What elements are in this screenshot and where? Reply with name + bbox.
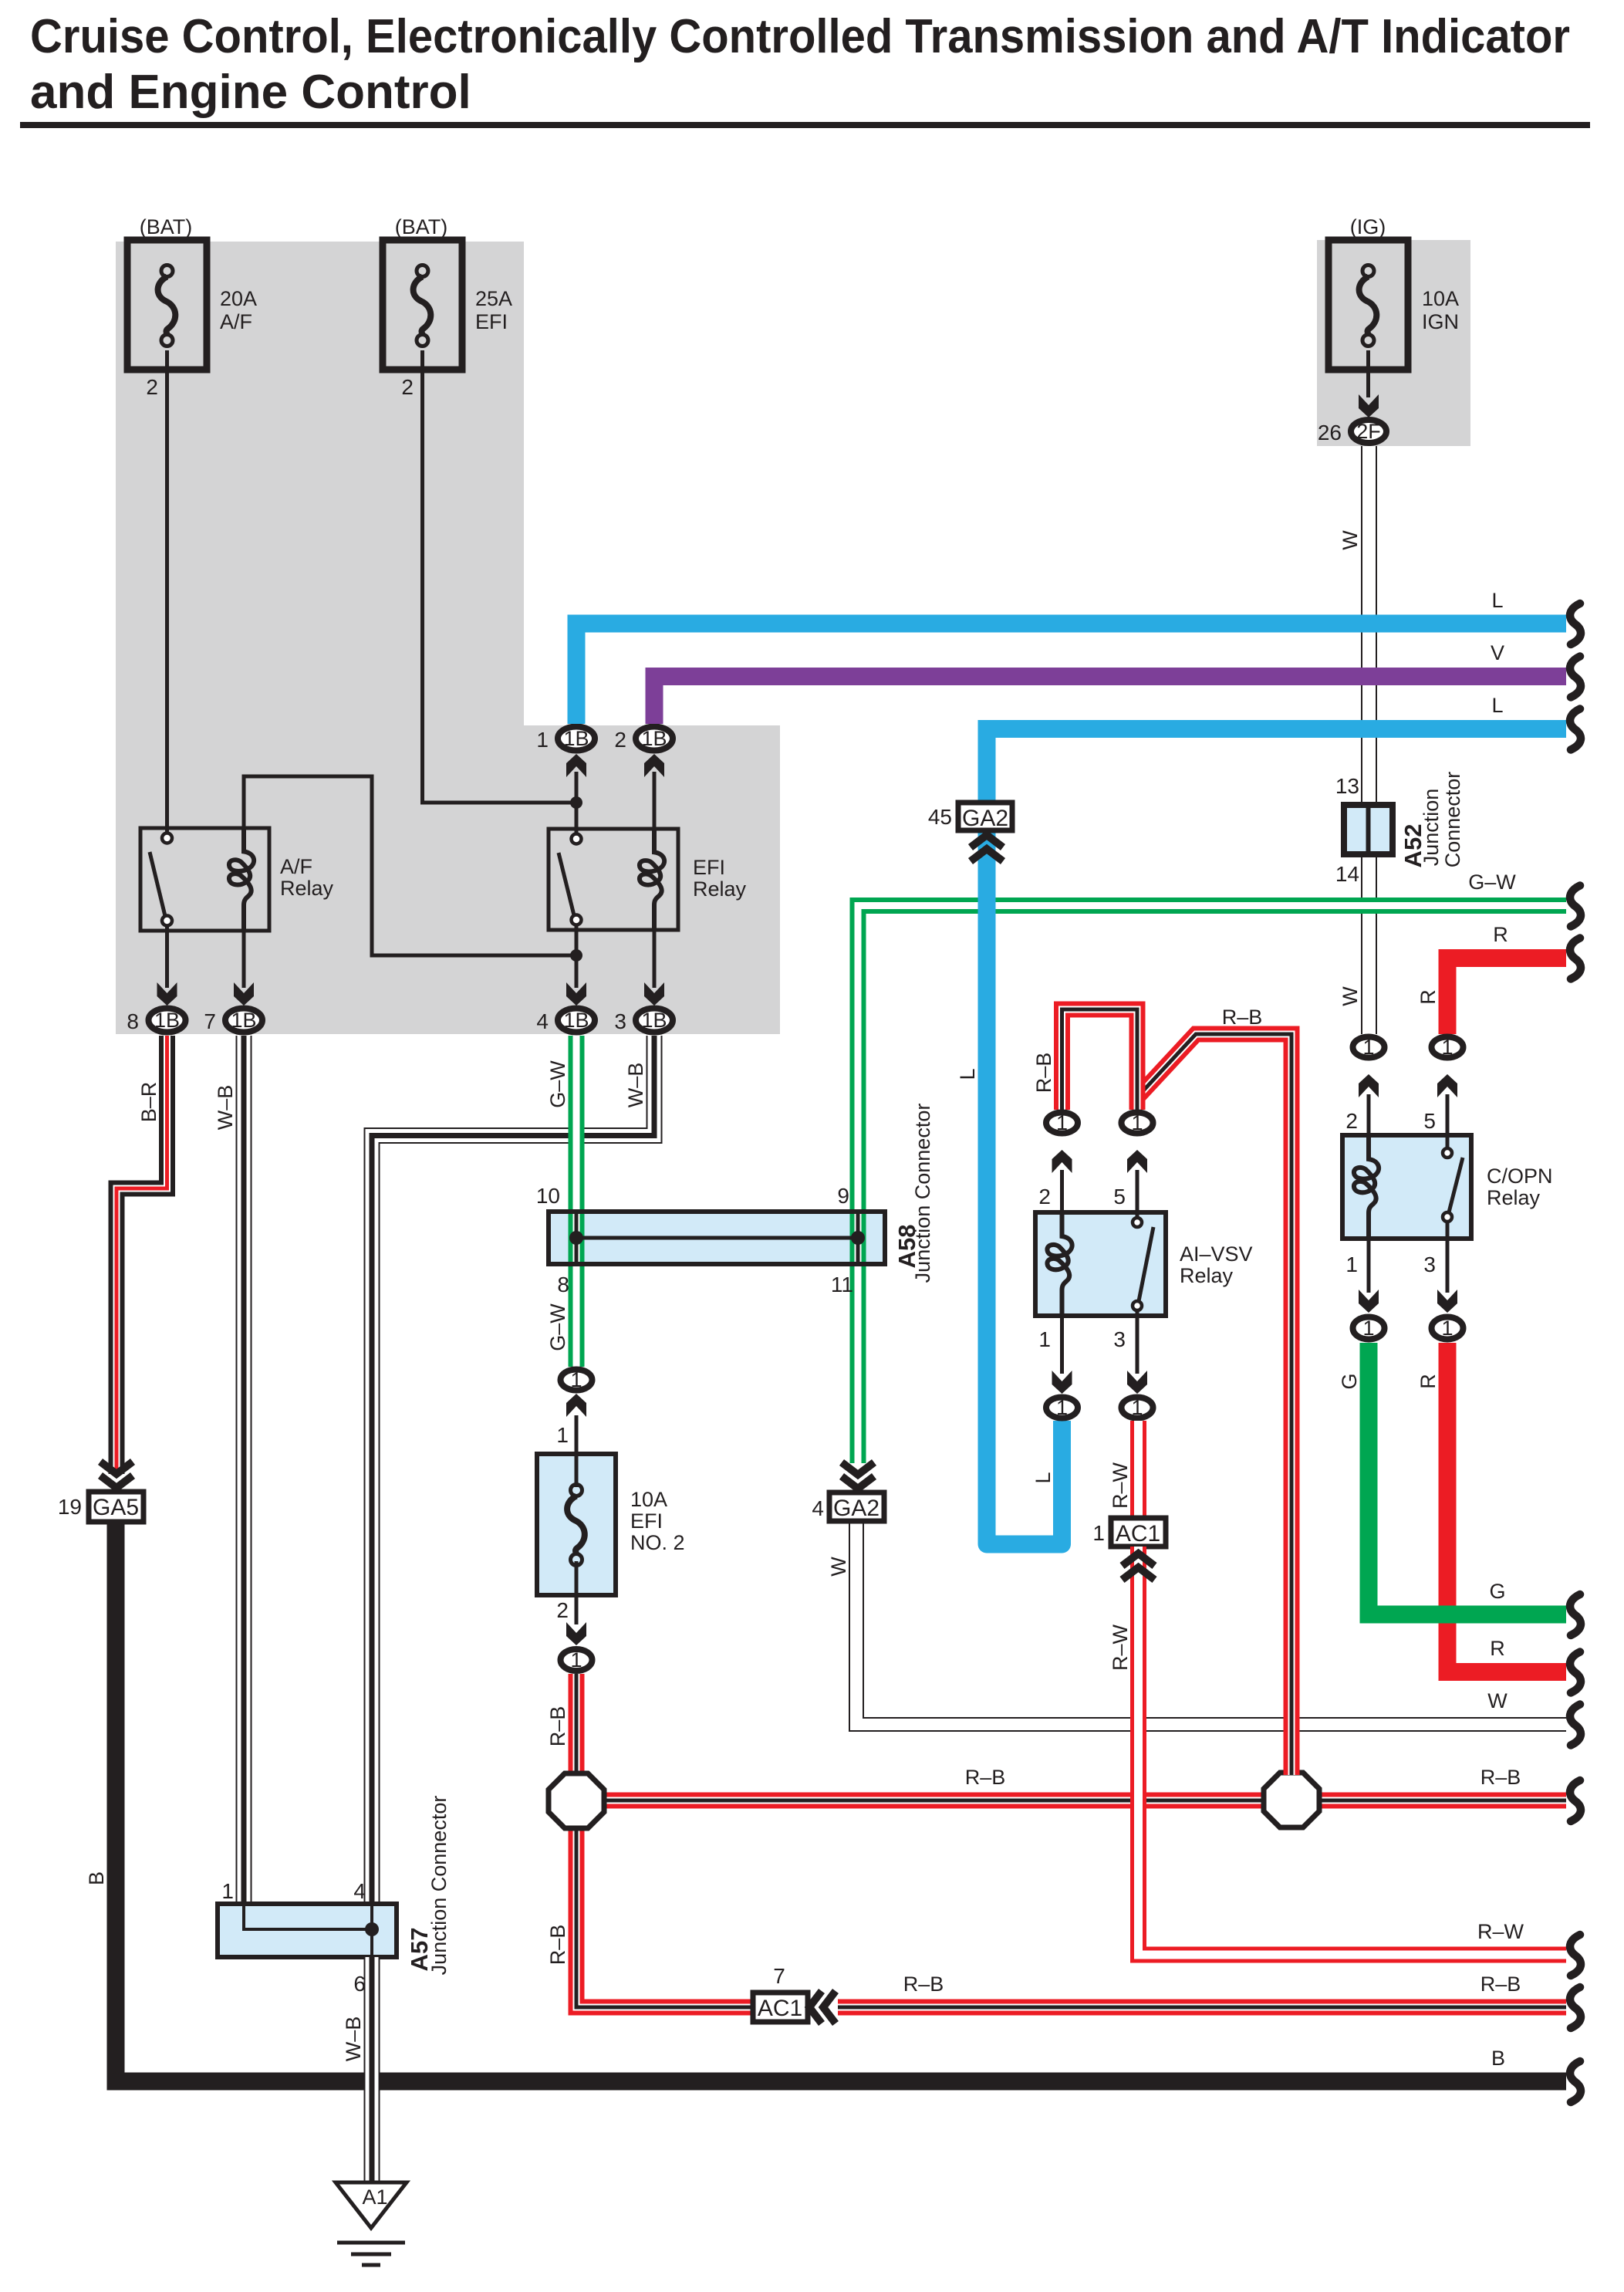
connector oval 2 1B bbox=[636, 727, 673, 751]
fuse 25A EFI bbox=[383, 240, 462, 370]
wire L blue from GA2 to AI-VSV relay oval bbox=[987, 830, 1062, 1544]
svg-text:13: 13 bbox=[1335, 774, 1359, 798]
svg-text:A/F: A/F bbox=[280, 855, 312, 878]
svg-text:5: 5 bbox=[1113, 1185, 1126, 1209]
svg-text:L: L bbox=[1031, 1472, 1055, 1483]
svg-text:G–W: G–W bbox=[1468, 870, 1516, 894]
wire R from break to C/OPN pin5 oval bbox=[1447, 958, 1566, 1035]
svg-text:W: W bbox=[1339, 986, 1362, 1006]
junction connector A58 bbox=[549, 1212, 885, 1264]
svg-text:1: 1 bbox=[1345, 1252, 1358, 1276]
break R-W bbox=[1570, 1935, 1581, 1976]
wire oval to AI-VSV pin5 bbox=[1136, 1170, 1140, 1212]
svg-text:2: 2 bbox=[1038, 1185, 1051, 1209]
fuse 20A A/F bbox=[127, 240, 207, 370]
arrow into 8 1B bbox=[157, 982, 177, 1006]
svg-text:7: 7 bbox=[773, 1964, 785, 1988]
svg-text:R–W: R–W bbox=[1109, 1624, 1132, 1671]
wire R-W oval to AC1 bbox=[1130, 1421, 1146, 1518]
break R-B bottom bbox=[1570, 1987, 1581, 2028]
svg-text:(BAT): (BAT) bbox=[140, 215, 193, 238]
svg-text:1: 1 bbox=[1092, 1521, 1105, 1545]
svg-text:IGN: IGN bbox=[1422, 310, 1459, 333]
wire R-W AC1 to break bbox=[1139, 1547, 1567, 1955]
connector oval AI-VSV pin5 bbox=[1122, 1111, 1153, 1134]
svg-text:V: V bbox=[1491, 641, 1504, 664]
svg-text:R–W: R–W bbox=[1109, 1462, 1132, 1509]
connector oval 8 1B bbox=[149, 1009, 186, 1033]
wire EFI relay switch to node bbox=[575, 920, 579, 955]
svg-text:EFI: EFI bbox=[475, 310, 508, 333]
wire oval to C/OPN pin5 bbox=[1446, 1094, 1450, 1135]
wire C/OPN pin1 down bbox=[1367, 1239, 1371, 1293]
svg-text:A1: A1 bbox=[362, 2186, 387, 2209]
svg-text:Relay: Relay bbox=[1180, 1264, 1234, 1287]
svg-text:(BAT): (BAT) bbox=[395, 215, 448, 238]
svg-text:GA2: GA2 bbox=[962, 806, 1008, 831]
arrow into oval below pin3 bbox=[1127, 1371, 1147, 1394]
wire fuse EFI down bbox=[423, 350, 577, 803]
svg-text:G–W: G–W bbox=[546, 1060, 569, 1108]
svg-text:AC1: AC1 bbox=[1116, 1521, 1160, 1547]
svg-text:R–B: R–B bbox=[1481, 1973, 1521, 1996]
svg-text:G: G bbox=[1489, 1580, 1505, 1603]
junction connector A52 bbox=[1344, 805, 1393, 854]
svg-text:EFI: EFI bbox=[693, 856, 725, 879]
svg-text:R: R bbox=[1416, 1374, 1440, 1389]
arrow into AI-VSV pin5 oval bbox=[1127, 1150, 1147, 1173]
wire oval to C/OPN pin2 bbox=[1367, 1094, 1371, 1135]
break G bbox=[1570, 1594, 1581, 1635]
connector oval AI-VSV pin2 bbox=[1046, 1111, 1078, 1134]
wire G-W horizontal from break down to 4 GA2 bbox=[858, 906, 1566, 1464]
svg-text:Junction Connector: Junction Connector bbox=[427, 1796, 451, 1976]
svg-text:GA5: GA5 bbox=[93, 1495, 139, 1520]
svg-text:W–B: W–B bbox=[342, 2016, 365, 2062]
wire EFI relay coil to 3 1B bbox=[653, 930, 657, 988]
svg-text:4: 4 bbox=[812, 1496, 824, 1520]
svg-text:and Engine Control: and Engine Control bbox=[30, 66, 471, 119]
break R bottom bbox=[1570, 1652, 1581, 1693]
svg-text:3: 3 bbox=[1423, 1252, 1436, 1276]
svg-text:1: 1 bbox=[1056, 1111, 1068, 1134]
connector oval below AI-VSV pin3 bbox=[1122, 1396, 1153, 1419]
svg-text:9: 9 bbox=[837, 1184, 849, 1208]
svg-text:G: G bbox=[1338, 1373, 1361, 1389]
connector oval 1 below fuse bbox=[561, 1648, 593, 1672]
svg-text:W: W bbox=[1487, 1689, 1508, 1712]
arrow into 2F bbox=[1359, 394, 1379, 417]
svg-text:3: 3 bbox=[1113, 1327, 1126, 1351]
svg-text:NO. 2: NO. 2 bbox=[630, 1531, 685, 1554]
wire node to EFI relay switch bbox=[575, 803, 579, 839]
arrow into GA5 bbox=[100, 1462, 133, 1488]
break B bbox=[1570, 2061, 1581, 2102]
svg-text:B–R: B–R bbox=[137, 1082, 160, 1123]
svg-text:10A: 10A bbox=[630, 1488, 667, 1511]
svg-text:GA2: GA2 bbox=[833, 1496, 880, 1521]
break R-B mid bbox=[1570, 1780, 1581, 1821]
connector oval below C/OPN pin1 bbox=[1353, 1317, 1385, 1340]
ground A1 bbox=[336, 2182, 407, 2265]
svg-text:L: L bbox=[956, 1068, 979, 1080]
svg-text:Relay: Relay bbox=[693, 877, 747, 901]
svg-text:W: W bbox=[827, 1557, 850, 1577]
svg-text:10A: 10A bbox=[1422, 287, 1459, 310]
break L first bbox=[1570, 603, 1581, 644]
break V bbox=[1570, 657, 1581, 698]
svg-text:Relay: Relay bbox=[1487, 1186, 1541, 1209]
wire fuse A/F to relay A/F bbox=[165, 350, 169, 838]
svg-text:4: 4 bbox=[353, 1879, 366, 1903]
connector oval 1 1B bbox=[558, 727, 595, 751]
svg-text:20A: 20A bbox=[220, 287, 257, 310]
connector oval 1 above fuse bbox=[561, 1368, 593, 1391]
svg-text:14: 14 bbox=[1335, 862, 1359, 886]
wire V purple to 2 1B bbox=[654, 677, 1566, 725]
junction node EFI relay bottom bbox=[570, 949, 582, 962]
wire W-B from 7 1B to A57 pin1 bbox=[236, 1036, 252, 1904]
wire G C/OPN pin1 to break bbox=[1369, 1343, 1566, 1614]
svg-text:5: 5 bbox=[1423, 1109, 1436, 1133]
wire B-R from 8 1B to GA5 bbox=[116, 1036, 167, 1474]
svg-text:Connector: Connector bbox=[1441, 772, 1464, 868]
arrow into oval below pin1 bbox=[1052, 1371, 1072, 1394]
wire node to 4 1B bbox=[575, 955, 579, 988]
svg-text:A/F: A/F bbox=[220, 310, 252, 333]
arrow into 4 1B bbox=[566, 982, 586, 1006]
svg-text:8: 8 bbox=[127, 1009, 139, 1033]
splice octagon right bbox=[1264, 1773, 1319, 1827]
svg-text:R–B: R–B bbox=[965, 1766, 1006, 1789]
wire W-B from 3 1B to A57 pin4 bbox=[372, 1036, 654, 1904]
wire R-B branch to right octagon bbox=[1135, 1034, 1291, 1775]
wire oval to AI-VSV pin2 bbox=[1060, 1170, 1064, 1212]
title bbox=[20, 10, 1590, 128]
connector oval 26 2F bbox=[1351, 420, 1386, 443]
svg-text:R–W: R–W bbox=[1477, 1920, 1524, 1943]
wire W-B A57 to ground bbox=[364, 1957, 380, 2226]
wire A/F relay coil to 7 1B bbox=[242, 931, 246, 988]
wire fuse to lower oval bbox=[575, 1595, 579, 1624]
wire R-B from break to AC1 chevron bbox=[838, 2000, 1566, 2016]
svg-text:L: L bbox=[1491, 589, 1503, 612]
svg-text:1: 1 bbox=[1131, 1111, 1143, 1134]
relay A/F bbox=[140, 828, 269, 931]
svg-text:Cruise Control, Electronically: Cruise Control, Electronically Controlle… bbox=[30, 10, 1570, 63]
connector 19 GA5 bbox=[89, 1492, 143, 1522]
svg-text:R: R bbox=[1493, 923, 1508, 946]
fuse 10A IGN bbox=[1329, 240, 1408, 370]
svg-text:1: 1 bbox=[1441, 1036, 1453, 1059]
relay EFI bbox=[549, 829, 678, 930]
wire node to 1B pin1 bbox=[575, 772, 579, 803]
arrow into 1B pin1 bbox=[566, 754, 586, 777]
wire L blue overlay at G-W crossing bbox=[978, 887, 996, 926]
wire fuse IGN to 2F bbox=[1366, 350, 1370, 397]
svg-text:B: B bbox=[85, 1871, 108, 1885]
svg-text:1B: 1B bbox=[641, 727, 667, 750]
arrow into oval below pin1 bbox=[1359, 1290, 1379, 1313]
wire C/OPN pin3 down bbox=[1446, 1239, 1450, 1293]
wire node to A/F relay coil bbox=[244, 776, 576, 955]
svg-text:W–B: W–B bbox=[214, 1085, 237, 1131]
svg-text:R–B: R–B bbox=[546, 1706, 569, 1747]
arrow into AI-VSV pin2 oval bbox=[1052, 1150, 1072, 1173]
svg-text:Junction Connector: Junction Connector bbox=[911, 1104, 934, 1283]
svg-text:W–B: W–B bbox=[624, 1063, 647, 1108]
wire G-W to 4 GA2 chevron bbox=[842, 1462, 874, 1489]
wire R C/OPN pin3 to break bbox=[1447, 1343, 1566, 1672]
svg-text:1B: 1B bbox=[563, 727, 589, 750]
svg-text:1B: 1B bbox=[154, 1009, 180, 1032]
svg-text:26: 26 bbox=[1318, 421, 1342, 445]
wire W from 2F to A52 bbox=[1361, 446, 1377, 802]
svg-text:1: 1 bbox=[1131, 1396, 1143, 1419]
connector oval 4 1B bbox=[558, 1009, 595, 1033]
connector oval C/OPN pin5 bbox=[1432, 1036, 1464, 1059]
svg-text:8: 8 bbox=[557, 1273, 569, 1296]
relay AI-VSV bbox=[1035, 1212, 1166, 1316]
connector 7 AC1 bbox=[753, 1993, 808, 2022]
junction connector A57 bbox=[218, 1904, 397, 1957]
splice octagon left bbox=[549, 1773, 604, 1828]
svg-text:4: 4 bbox=[536, 1009, 549, 1033]
wire W from A52 to C/OPN oval bbox=[1361, 857, 1377, 1034]
wire EFI relay coil top to 2 1B bbox=[653, 772, 657, 829]
arrow into 1 AC1 bbox=[1123, 1553, 1155, 1580]
arrow into C/OPN pin5 oval bbox=[1437, 1074, 1457, 1097]
svg-text:1: 1 bbox=[556, 1423, 569, 1447]
connector oval 7 1B bbox=[225, 1009, 262, 1033]
connector oval below AI-VSV pin1 bbox=[1046, 1396, 1078, 1419]
wire AI-VSV pin1 down bbox=[1060, 1316, 1064, 1374]
svg-text:1: 1 bbox=[1362, 1036, 1374, 1059]
break W bbox=[1570, 1705, 1581, 1746]
fuse 10A EFI NO.2 bbox=[537, 1454, 616, 1595]
svg-text:AC1: AC1 bbox=[758, 1996, 802, 2021]
gray harness background center bbox=[524, 725, 780, 1034]
break R top bbox=[1570, 938, 1581, 979]
wire W from 4 GA2 to break bbox=[849, 1521, 1566, 1731]
wire AI-VSV pin3 down bbox=[1136, 1316, 1140, 1374]
wire R-B octagon to right octagon to break bbox=[602, 1793, 1566, 1809]
svg-text:B: B bbox=[1491, 2047, 1505, 2070]
svg-text:R: R bbox=[1416, 989, 1440, 1005]
svg-text:G–W: G–W bbox=[546, 1303, 569, 1351]
svg-text:1: 1 bbox=[570, 1368, 582, 1391]
arrow into C/OPN pin2 oval bbox=[1359, 1074, 1379, 1097]
svg-text:L: L bbox=[1491, 694, 1503, 717]
svg-text:7: 7 bbox=[204, 1009, 216, 1033]
wire G-W from 4 1B through A58 to fuse oval bbox=[569, 1036, 585, 1367]
svg-text:2: 2 bbox=[1345, 1109, 1358, 1133]
connector oval 3 1B bbox=[636, 1009, 673, 1033]
svg-text:1: 1 bbox=[221, 1879, 234, 1903]
wire R-B octagon down to AC1 bbox=[576, 1827, 756, 2007]
svg-text:2F: 2F bbox=[1356, 420, 1381, 443]
svg-text:11: 11 bbox=[831, 1273, 853, 1296]
svg-text:1: 1 bbox=[570, 1648, 582, 1672]
svg-text:2: 2 bbox=[401, 375, 414, 399]
arrow into oval below pin3 bbox=[1437, 1290, 1457, 1313]
svg-text:(IG): (IG) bbox=[1350, 215, 1386, 238]
svg-text:R–B: R–B bbox=[1032, 1053, 1055, 1094]
svg-text:W: W bbox=[1339, 530, 1362, 550]
arrow into oval above fuse EFI NO.2 bbox=[566, 1394, 586, 1417]
svg-text:Relay: Relay bbox=[280, 877, 334, 900]
svg-text:R: R bbox=[1490, 1637, 1505, 1660]
arrow into 7 1B bbox=[234, 982, 254, 1006]
svg-text:R–B: R–B bbox=[903, 1973, 944, 1996]
svg-text:R–B: R–B bbox=[1222, 1006, 1263, 1029]
arrow into lower oval bbox=[566, 1622, 586, 1645]
svg-text:1B: 1B bbox=[563, 1009, 589, 1032]
svg-text:3: 3 bbox=[614, 1009, 626, 1033]
relay C/OPN bbox=[1342, 1135, 1471, 1239]
svg-text:45: 45 bbox=[928, 805, 952, 829]
connector 1 AC1 bbox=[1111, 1518, 1166, 1547]
svg-text:10: 10 bbox=[536, 1184, 560, 1208]
connector 45 GA2 bbox=[958, 803, 1012, 831]
svg-text:25A: 25A bbox=[475, 287, 512, 310]
connector oval below C/OPN pin3 bbox=[1432, 1317, 1464, 1340]
svg-text:R–B: R–B bbox=[546, 1925, 569, 1966]
wire L blue to 1 1B bbox=[576, 624, 1566, 724]
wire R-B inverted U above AI-VSV bbox=[1062, 1009, 1138, 1110]
svg-text:EFI: EFI bbox=[630, 1509, 663, 1533]
connector oval C/OPN pin2 bbox=[1353, 1036, 1385, 1059]
arrow into 3 1B bbox=[644, 982, 664, 1006]
svg-text:AI–VSV: AI–VSV bbox=[1180, 1242, 1253, 1266]
arrow into 45 GA2 bbox=[971, 835, 1003, 861]
svg-text:2: 2 bbox=[556, 1598, 569, 1622]
svg-text:Junction: Junction bbox=[1420, 789, 1443, 867]
wire A/F relay switch to 8 1B bbox=[165, 921, 169, 988]
arrow into 7 AC1 bbox=[809, 1991, 836, 2023]
svg-text:1: 1 bbox=[1362, 1317, 1374, 1340]
svg-text:1B: 1B bbox=[641, 1009, 667, 1032]
svg-text:2: 2 bbox=[146, 375, 158, 399]
svg-text:1: 1 bbox=[536, 728, 549, 752]
wire oval to fuse EFI NO.2 bbox=[575, 1415, 579, 1454]
svg-text:19: 19 bbox=[58, 1495, 82, 1519]
wire R-B oval to octagon bbox=[569, 1674, 585, 1775]
connector 4 GA2 bbox=[829, 1493, 884, 1521]
svg-text:1B: 1B bbox=[231, 1009, 256, 1032]
break G-W bbox=[1570, 886, 1581, 927]
break L second bbox=[1570, 709, 1581, 750]
svg-text:R–B: R–B bbox=[1481, 1766, 1521, 1789]
arrow into 2 1B bbox=[644, 754, 664, 777]
wire B ground bus bbox=[116, 1520, 1566, 2081]
svg-text:1: 1 bbox=[1056, 1396, 1068, 1419]
svg-text:1: 1 bbox=[1441, 1317, 1453, 1340]
wire L blue second to GA2 bbox=[987, 729, 1566, 803]
svg-text:2: 2 bbox=[614, 728, 626, 752]
svg-text:1: 1 bbox=[1038, 1327, 1051, 1351]
gray harness background left bbox=[116, 242, 524, 1034]
svg-text:C/OPN: C/OPN bbox=[1487, 1165, 1553, 1188]
gray harness background IGN bbox=[1317, 240, 1470, 446]
junction node EFI relay top bbox=[570, 796, 582, 809]
